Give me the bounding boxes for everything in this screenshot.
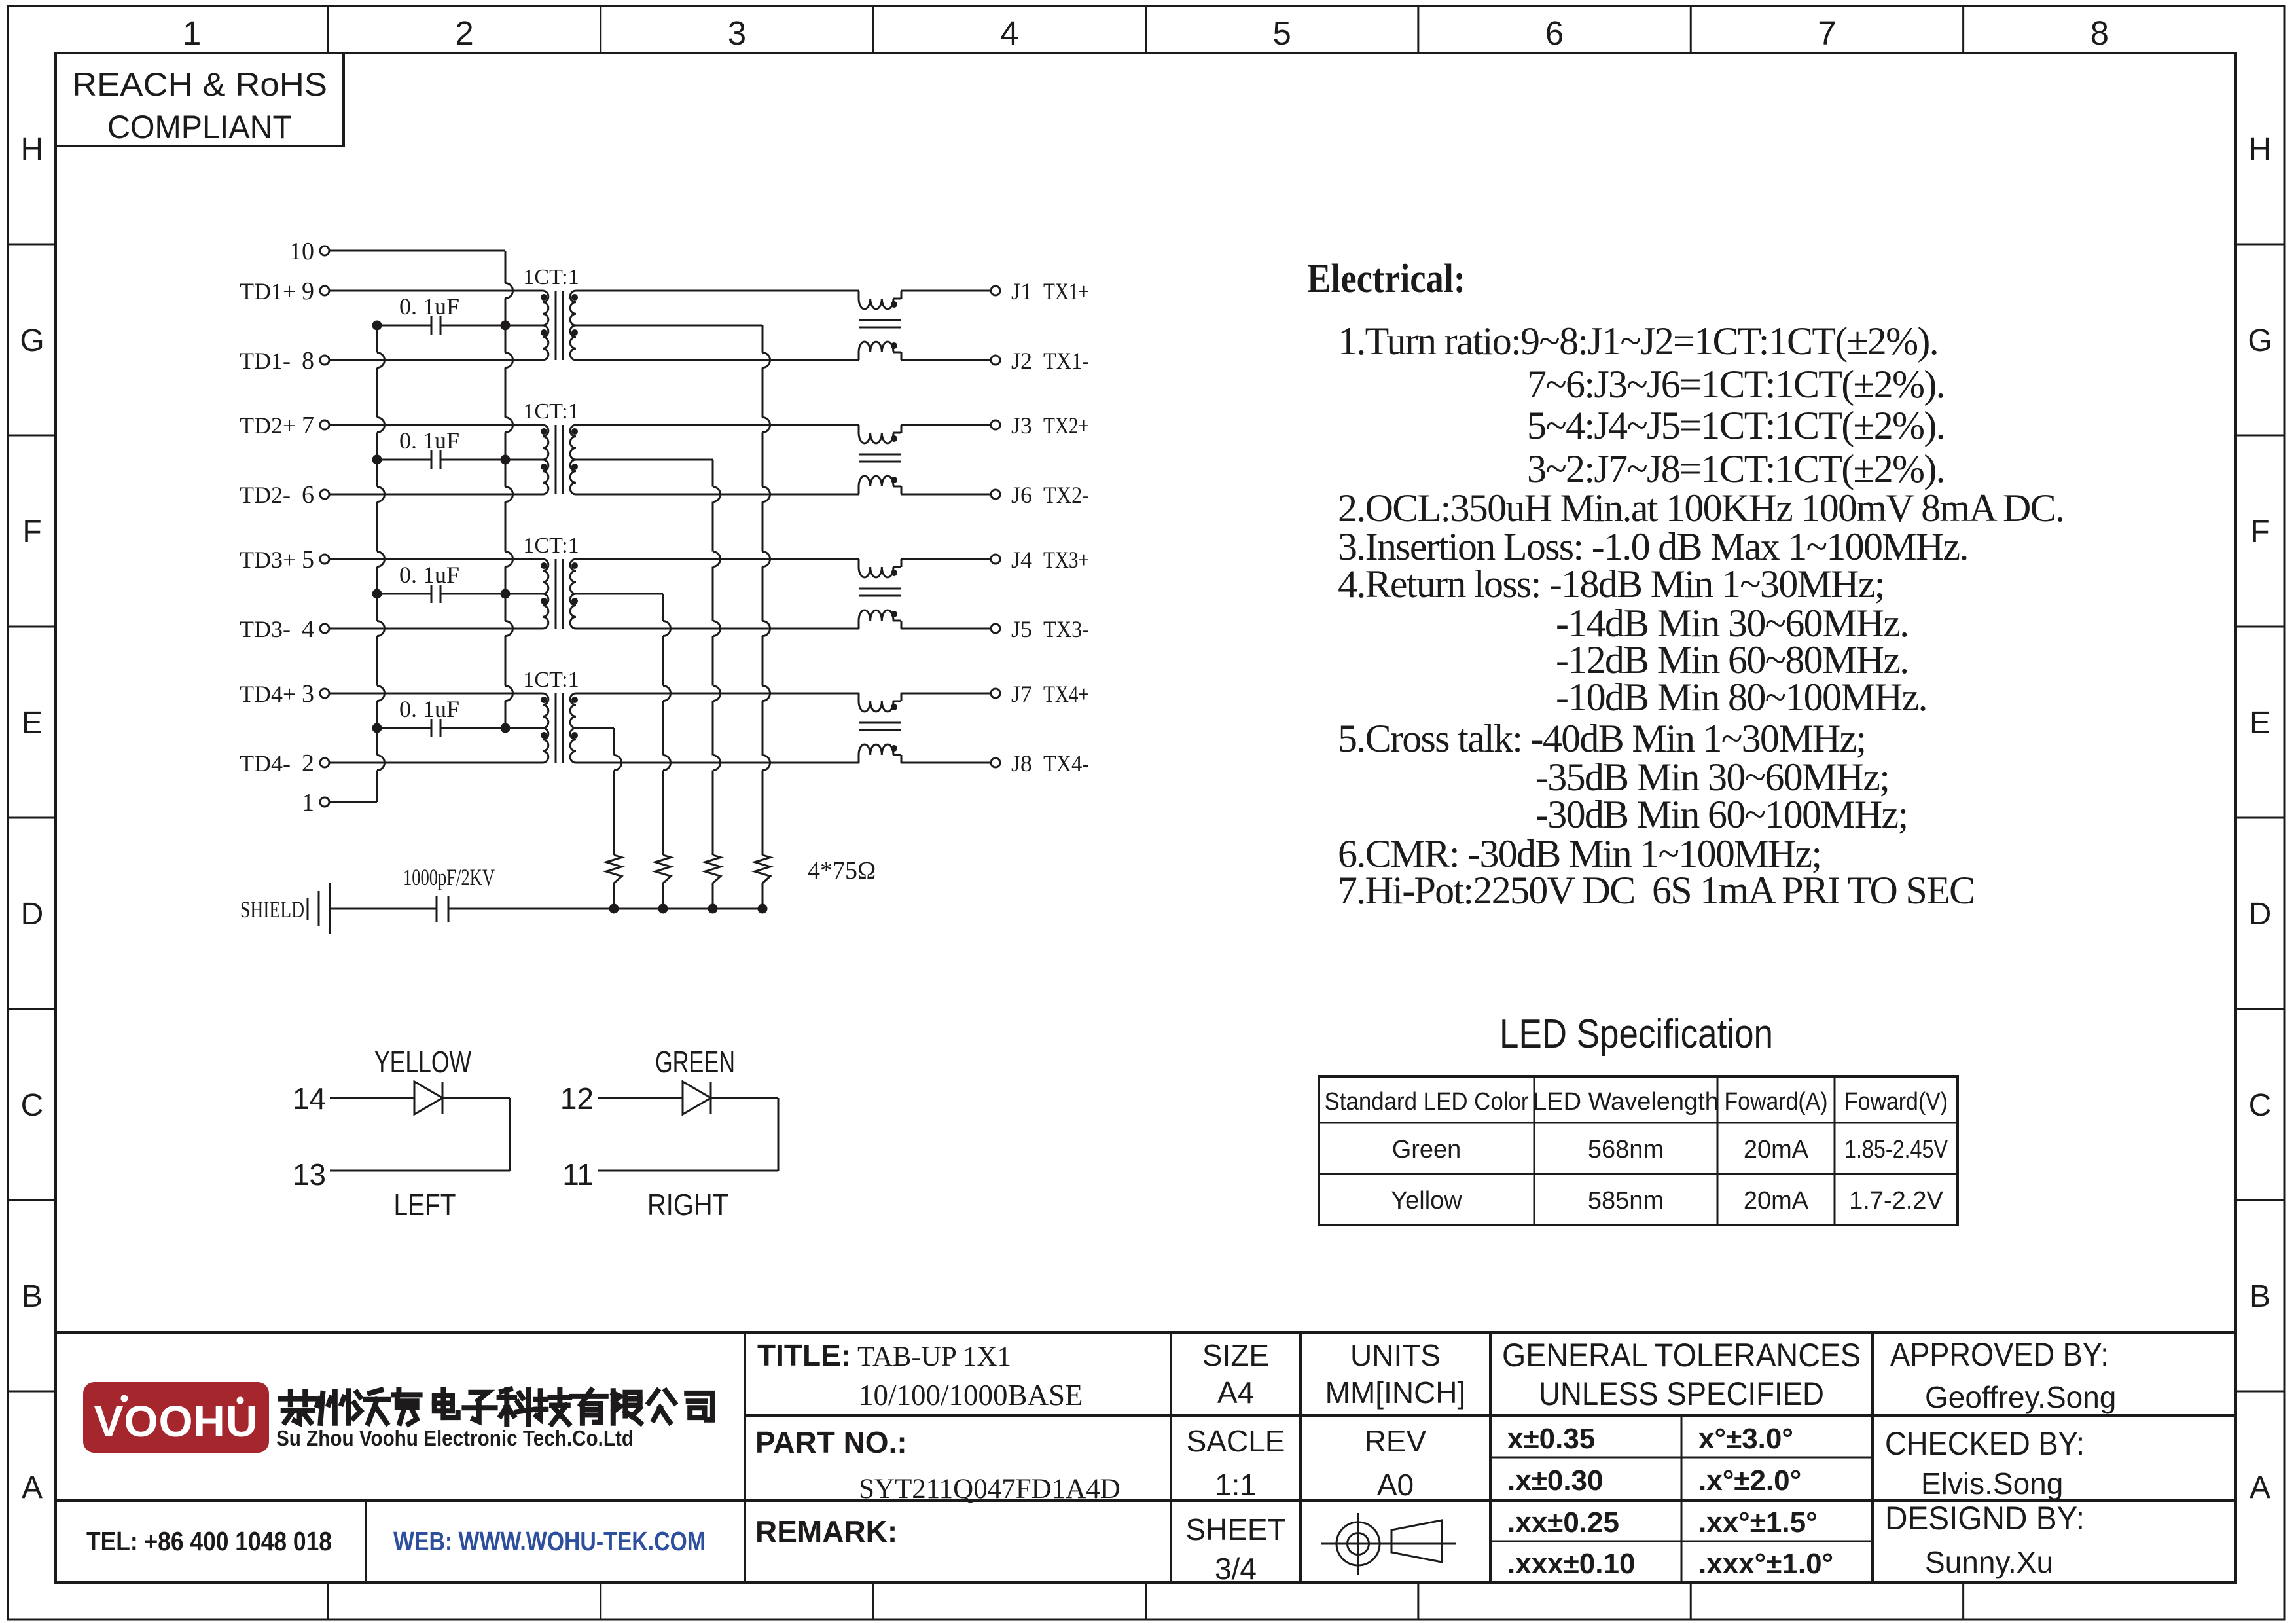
pin J1 TX1+: [991, 278, 1089, 304]
pin J7 TX4+: [991, 681, 1089, 707]
wire T4 center tap: [576, 728, 622, 855]
svg-text:TX3+: TX3+: [1043, 547, 1089, 573]
svg-text:TD4-: TD4-: [240, 750, 291, 776]
svg-text:3/4: 3/4: [1215, 1552, 1257, 1586]
wire choke to J5: [901, 628, 991, 630]
svg-text:TD2-: TD2-: [240, 482, 291, 508]
svg-text:12: 12: [560, 1082, 594, 1116]
svg-text:SIZE: SIZE: [1202, 1338, 1269, 1372]
junction dots cap C4: [372, 723, 511, 733]
svg-text:13: 13: [293, 1158, 326, 1192]
svg-text:.xx°±1.5°: .xx°±1.5°: [1698, 1506, 1818, 1539]
pin 2 TD4-: [240, 750, 329, 777]
svg-text:YELLOW: YELLOW: [374, 1045, 471, 1079]
svg-text:.xxx±0.10: .xxx±0.10: [1507, 1548, 1635, 1580]
svg-text:3~2:J7~J8=1CT:1CT(±2%).: 3~2:J7~J8=1CT:1CT(±2%).: [1527, 447, 1945, 490]
wire TD2+ row: [329, 424, 543, 426]
svg-text:6: 6: [1545, 14, 1564, 52]
svg-text:MM[INCH]: MM[INCH]: [1325, 1376, 1466, 1410]
svg-text:TD1-: TD1-: [240, 348, 291, 374]
svg-text:F: F: [22, 515, 41, 549]
svg-text:GENERAL TOLERANCES: GENERAL TOLERANCES: [1502, 1337, 1861, 1374]
svg-text:J2: J2: [1011, 348, 1032, 374]
svg-text:1.7-2.2V: 1.7-2.2V: [1849, 1187, 1943, 1214]
choke L1 common-mode: [859, 291, 901, 360]
svg-text:H: H: [2249, 132, 2272, 167]
svg-text:1CT:1: 1CT:1: [523, 534, 579, 558]
capacitor C5 1000pF/2KV: [330, 864, 495, 922]
svg-text:TD3+: TD3+: [240, 547, 296, 573]
svg-text:4.Return loss: -18dB Min 1~30M: 4.Return loss: -18dB Min 1~30MHz;: [1338, 562, 1884, 606]
wire T3 secondary bottom to choke: [576, 628, 859, 630]
note Electrical heading: [1307, 257, 1465, 301]
capacitor C2 0.1uF: [377, 428, 543, 469]
svg-text:.x°±2.0°: .x°±2.0°: [1698, 1465, 1801, 1497]
title block grid: [56, 1332, 2236, 1582]
svg-text:0. 1uF: 0. 1uF: [399, 696, 459, 722]
zone letters right H-A: [2248, 132, 2272, 1505]
LED D2 GREEN: [560, 1045, 778, 1171]
transformer T1 1CT:1: [523, 265, 579, 360]
pin J5 TX3-: [991, 616, 1089, 642]
svg-text:C: C: [2249, 1088, 2272, 1123]
svg-text:REACH & RoHS: REACH & RoHS: [72, 66, 327, 103]
field APPROVED BY: [1890, 1336, 2116, 1414]
transformer T2 1CT:1: [523, 399, 579, 494]
svg-text:4*75Ω: 4*75Ω: [808, 857, 876, 884]
svg-text:568nm: 568nm: [1588, 1136, 1664, 1163]
svg-text:D: D: [2249, 897, 2272, 932]
transformer T3 1CT:1: [523, 534, 579, 629]
svg-text:7~6:J3~J6=1CT:1CT(±2%).: 7~6:J3~J6=1CT:1CT(±2%).: [1527, 363, 1945, 406]
field CHECKED BY: [1885, 1425, 2085, 1501]
svg-text:SYT211Q047FD1A4D: SYT211Q047FD1A4D: [859, 1474, 1121, 1504]
tolerance values: [1507, 1423, 1833, 1580]
svg-text:5: 5: [1273, 14, 1291, 52]
svg-text:Yellow: Yellow: [1391, 1187, 1462, 1214]
svg-text:COMPLIANT: COMPLIANT: [107, 109, 292, 145]
junction dot R4/bus: [609, 904, 619, 914]
field UNITS MM[INCH]: [1325, 1338, 1466, 1410]
wire T4 secondary top to choke: [576, 693, 859, 695]
pin 9 TD1+: [240, 278, 329, 305]
svg-text:10: 10: [289, 238, 314, 265]
company name Chinese text: [281, 1389, 713, 1424]
svg-text:B: B: [2250, 1279, 2270, 1314]
wire LED D2 return / pin 11: [562, 1158, 778, 1222]
svg-text:x±0.35: x±0.35: [1507, 1423, 1595, 1455]
svg-text:LED Wavelength: LED Wavelength: [1533, 1088, 1719, 1116]
svg-text:C: C: [21, 1088, 44, 1123]
svg-text:E: E: [22, 706, 43, 740]
svg-text:0. 1uF: 0. 1uF: [399, 428, 459, 454]
wire TD3+ row: [329, 558, 543, 560]
svg-text:3: 3: [728, 14, 746, 52]
wire TD4+ row: [329, 693, 543, 695]
pin 7 TD2+: [240, 412, 329, 439]
svg-text:2: 2: [455, 14, 473, 52]
pin J3 TX2+: [991, 412, 1089, 439]
resistor R3 75ohm: [655, 855, 671, 909]
svg-text:UNLESS SPECIFIED: UNLESS SPECIFIED: [1539, 1376, 1824, 1412]
svg-text:1.Turn ratio:9~8:J1~J2=1CT:1CT: 1.Turn ratio:9~8:J1~J2=1CT:1CT(±2%).: [1338, 319, 1938, 363]
svg-text:11: 11: [562, 1158, 594, 1192]
capacitor C4 0.1uF: [377, 696, 543, 737]
junction dots cap C1: [372, 321, 511, 331]
resistor R2 75ohm: [705, 855, 721, 909]
svg-text:J3: J3: [1011, 412, 1032, 439]
wire T2 center tap: [576, 460, 721, 855]
svg-text:TX4+: TX4+: [1043, 681, 1089, 707]
zone row ticks left/right: [8, 244, 2284, 1391]
note electrical specs list: [1338, 319, 2064, 912]
wire bus x=576 (cap left nodes to pin1): [377, 325, 385, 802]
svg-text:A: A: [22, 1470, 43, 1505]
pin 8 TD1-: [240, 347, 329, 374]
svg-text:1: 1: [183, 14, 201, 52]
junction dot R1/bus: [758, 904, 768, 914]
svg-text:TX1-: TX1-: [1043, 348, 1089, 374]
svg-text:Foward(V): Foward(V): [1844, 1088, 1948, 1116]
zone numbers top 1-8: [183, 14, 2109, 52]
svg-text:TEL: +86 400 1048 018: TEL: +86 400 1048 018: [86, 1526, 332, 1556]
svg-text:20mA: 20mA: [1744, 1187, 1809, 1214]
svg-text:TD4+: TD4+: [240, 681, 296, 707]
company name English text: [276, 1426, 634, 1450]
field PART NO: [755, 1425, 1121, 1504]
svg-text:585nm: 585nm: [1588, 1187, 1664, 1214]
svg-text:J5: J5: [1011, 616, 1032, 642]
wire choke to J4: [901, 558, 991, 560]
svg-text:F: F: [2250, 515, 2269, 549]
pin 10: [289, 238, 329, 265]
svg-text:REMARK:: REMARK:: [755, 1514, 897, 1548]
zone column ticks top/bottom: [328, 6, 1963, 1620]
svg-text:APPROVED BY:: APPROVED BY:: [1890, 1336, 2109, 1373]
pin 4 TD3-: [240, 615, 329, 643]
svg-text:-30dB Min 60~100MHz;: -30dB Min 60~100MHz;: [1535, 793, 1907, 836]
svg-text:TITLE:: TITLE:: [757, 1338, 851, 1372]
svg-text:Su Zhou Voohu Electronic Tech.: Su Zhou Voohu Electronic Tech.Co.Ltd: [276, 1426, 634, 1450]
wire choke to J8: [901, 762, 991, 764]
capacitor C3 0.1uF: [377, 562, 543, 603]
choke L4 common-mode: [859, 693, 901, 763]
svg-text:G: G: [20, 323, 44, 358]
svg-text:20mA: 20mA: [1744, 1136, 1809, 1163]
contact TEL: [86, 1526, 332, 1556]
svg-text:G: G: [2248, 323, 2272, 358]
capacitor C1 0.1uF: [377, 293, 543, 335]
svg-text:J4: J4: [1011, 547, 1032, 573]
svg-text:UNITS: UNITS: [1350, 1338, 1441, 1372]
svg-text:VOOHU: VOOHU: [94, 1397, 259, 1446]
wire choke to J2: [901, 359, 991, 361]
wire choke to J6: [901, 494, 991, 496]
svg-text:10/100/1000BASE: 10/100/1000BASE: [859, 1379, 1083, 1412]
svg-text:B: B: [22, 1279, 43, 1314]
svg-text:TAB-UP 1X1: TAB-UP 1X1: [857, 1341, 1011, 1372]
company logo VOOHU: [83, 1382, 269, 1453]
svg-text:REV: REV: [1365, 1424, 1427, 1458]
resistor R1 75ohm: [755, 855, 770, 909]
svg-text:Sunny.Xu: Sunny.Xu: [1925, 1545, 2053, 1579]
svg-text:D: D: [21, 897, 44, 932]
wire T3 secondary top to choke: [576, 558, 859, 560]
wire T3 center tap: [576, 594, 671, 855]
svg-text:6: 6: [302, 481, 314, 509]
svg-text:1CT:1: 1CT:1: [523, 265, 579, 289]
svg-text:J6: J6: [1011, 482, 1032, 508]
wire choke to J7: [901, 693, 991, 695]
svg-text:E: E: [2250, 706, 2270, 740]
svg-text:4: 4: [1000, 14, 1018, 52]
svg-text:3: 3: [302, 680, 314, 708]
svg-text:J1: J1: [1011, 278, 1032, 304]
field TITLE: [757, 1338, 1083, 1412]
svg-text:Standard LED Color: Standard LED Color: [1325, 1088, 1529, 1116]
svg-text:WEB: WWW.WOHU-TEK.COM: WEB: WWW.WOHU-TEK.COM: [393, 1526, 706, 1556]
svg-text:7: 7: [1818, 14, 1836, 52]
pin 6 TD2-: [240, 481, 329, 509]
svg-text:Green: Green: [1392, 1136, 1462, 1163]
svg-text:0. 1uF: 0. 1uF: [399, 293, 459, 319]
shield symbol: [308, 883, 330, 934]
wire TD1+ row: [329, 290, 543, 292]
svg-text:5.Cross talk: -40dB Min 1~30MH: 5.Cross talk: -40dB Min 1~30MHz;: [1338, 717, 1865, 760]
svg-text:4: 4: [302, 615, 314, 643]
svg-text:5~4:J4~J5=1CT:1CT(±2%).: 5~4:J4~J5=1CT:1CT(±2%).: [1527, 404, 1945, 447]
wire T2 secondary top to choke: [576, 424, 859, 426]
choke L2 common-mode: [859, 425, 901, 494]
general tolerances header: [1502, 1337, 1861, 1412]
wire choke to J1: [901, 290, 991, 292]
wire TD3- row: [329, 628, 543, 630]
wire T4 secondary bottom to choke: [576, 762, 859, 764]
svg-text:TX4-: TX4-: [1043, 750, 1089, 776]
pin 1: [302, 789, 329, 816]
svg-text:.xxx°±1.0°: .xxx°±1.0°: [1698, 1548, 1833, 1580]
wire LED D1 return / pin 13: [293, 1158, 510, 1222]
svg-text:Electrical:: Electrical:: [1307, 257, 1465, 301]
pin J4 TX3+: [991, 547, 1089, 573]
wire bottom bus: [448, 908, 762, 910]
svg-text:5: 5: [302, 546, 314, 574]
junction dot R2/bus: [708, 904, 718, 914]
svg-text:7: 7: [302, 412, 314, 439]
field SIZE A4: [1202, 1338, 1269, 1410]
svg-text:SHIELD: SHIELD: [240, 896, 304, 922]
zone letters left H-A: [20, 132, 44, 1505]
pin 5 TD3+: [240, 546, 329, 574]
svg-text:CHECKED BY:: CHECKED BY:: [1885, 1425, 2085, 1462]
svg-text:1: 1: [302, 789, 314, 816]
choke L3 common-mode: [859, 559, 901, 629]
svg-text:TD1+: TD1+: [240, 278, 296, 304]
svg-text:.xx±0.25: .xx±0.25: [1507, 1506, 1619, 1539]
wire T2 secondary bottom to choke: [576, 494, 859, 496]
pin J8 TX4-: [991, 750, 1089, 776]
svg-text:GREEN: GREEN: [655, 1045, 735, 1079]
svg-text:0. 1uF: 0. 1uF: [399, 562, 459, 588]
svg-text:8: 8: [302, 347, 314, 374]
svg-text:Foward(A): Foward(A): [1725, 1088, 1828, 1116]
wire pin1 to bus: [329, 801, 377, 803]
svg-text:TD2+: TD2+: [240, 412, 296, 439]
svg-text:Geoffrey.Song: Geoffrey.Song: [1925, 1380, 2116, 1414]
svg-text:TD3-: TD3-: [240, 616, 291, 642]
field REMARK: [755, 1514, 897, 1548]
LED D1 YELLOW: [293, 1045, 510, 1171]
REACH & RoHS COMPLIANT box: [56, 53, 344, 146]
wire TD2- row: [329, 494, 543, 496]
svg-text:TX1+: TX1+: [1043, 278, 1089, 304]
transformer T4 1CT:1: [523, 668, 579, 763]
pin J2 TX1-: [991, 348, 1089, 374]
svg-text:2.OCL:350uH Min.at 100KHz 100m: 2.OCL:350uH Min.at 100KHz 100mV 8mA DC.: [1338, 486, 2064, 530]
svg-text:9: 9: [302, 278, 314, 305]
svg-text:RIGHT: RIGHT: [647, 1188, 728, 1222]
svg-text:x°±3.0°: x°±3.0°: [1698, 1423, 1793, 1455]
contact WEB: [393, 1526, 706, 1556]
svg-text:14: 14: [293, 1082, 326, 1116]
SHIELD label: [240, 896, 304, 922]
svg-text:TX2-: TX2-: [1043, 482, 1089, 508]
svg-text:A0: A0: [1377, 1468, 1414, 1502]
field SHEET 3/4: [1185, 1512, 1285, 1586]
wire choke to J3: [901, 424, 991, 426]
svg-text:1000pF/2KV: 1000pF/2KV: [403, 864, 495, 890]
resistor R4 75ohm: [606, 855, 622, 909]
wire pin10 to bus: [329, 250, 505, 252]
svg-text:LEFT: LEFT: [394, 1188, 456, 1222]
wire TD1- row: [329, 359, 543, 361]
first-angle projection symbol: [1321, 1513, 1456, 1575]
svg-text:A4: A4: [1217, 1376, 1254, 1410]
junction dot R3/bus: [658, 904, 668, 914]
svg-text:Elvis.Song: Elvis.Song: [1921, 1467, 2063, 1501]
svg-text:DESIGND BY:: DESIGND BY:: [1885, 1500, 2085, 1537]
svg-text:LED Specification: LED Specification: [1499, 1012, 1773, 1057]
wire TD4- row: [329, 762, 543, 764]
pin 3 TD4+: [240, 680, 329, 708]
junction dots cap C3: [372, 589, 511, 599]
wire T1 center tap: [576, 325, 770, 855]
field DESIGND BY: [1885, 1500, 2085, 1579]
LED Specification title: [1499, 1012, 1773, 1057]
svg-text:TX3-: TX3-: [1043, 616, 1089, 642]
svg-text:2: 2: [302, 750, 314, 777]
field REV A0: [1365, 1424, 1427, 1502]
svg-text:PART NO.:: PART NO.:: [755, 1425, 907, 1459]
svg-text:TX2+: TX2+: [1043, 412, 1089, 439]
svg-text:1CT:1: 1CT:1: [523, 399, 579, 424]
svg-text:A: A: [2250, 1470, 2270, 1505]
wire T1 secondary top to choke: [576, 290, 859, 292]
junction dots cap C2: [372, 455, 511, 465]
field SACLE 1:1: [1187, 1424, 1285, 1502]
svg-text:1.85-2.45V: 1.85-2.45V: [1844, 1136, 1948, 1163]
svg-text:1CT:1: 1CT:1: [523, 668, 579, 692]
svg-text:J7: J7: [1011, 681, 1032, 707]
wire bus x=772 (pin10 to cap right nodes): [505, 251, 513, 728]
svg-text:.x±0.30: .x±0.30: [1507, 1465, 1603, 1497]
svg-text:8: 8: [2090, 14, 2109, 52]
svg-text:J8: J8: [1011, 750, 1032, 776]
pin J6 TX2-: [991, 482, 1089, 508]
label 4*75ohm: [808, 857, 876, 884]
svg-text:H: H: [21, 132, 44, 167]
svg-text:SACLE: SACLE: [1187, 1424, 1285, 1458]
svg-text:1:1: 1:1: [1215, 1468, 1257, 1502]
wire T1 secondary bottom to choke: [576, 359, 859, 361]
svg-text:-10dB Min 80~100MHz.: -10dB Min 80~100MHz.: [1556, 676, 1927, 719]
LED specification table: [1319, 1076, 1958, 1225]
svg-text:7.Hi-Pot:2250V DC 6S 1mA PRI: 7.Hi-Pot:2250V DC 6S 1mA PRI TO SEC: [1338, 869, 1974, 912]
svg-text:SHEET: SHEET: [1185, 1512, 1285, 1546]
